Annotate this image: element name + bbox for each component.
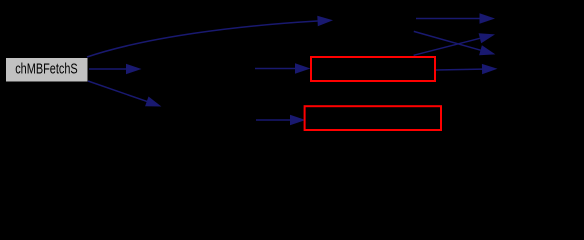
arrowhead (480, 13, 496, 23)
svg-text:chMBFetchS: chMBFetchS (15, 61, 77, 77)
wire: edge node A -> node B1 (horizontal) (416, 18, 480, 20)
wire: edge node A -> node B3 (diagonal down) (414, 31, 481, 50)
wire: edge chMBFetchS -> node E (diagonal down) (88, 81, 148, 102)
wire: edge node E -> red box 2 (256, 119, 291, 121)
arrowhead (126, 64, 142, 74)
arrowhead (479, 33, 495, 43)
node: red box 2 (truncated node) (305, 106, 441, 130)
arrowhead of curved edge (317, 16, 333, 26)
arrowhead (295, 63, 311, 73)
arrowhead (479, 45, 495, 55)
node chMBFetchS (current function, grey filled) (6, 58, 89, 83)
node: red box 1 (truncated node) (311, 57, 435, 81)
arrowhead (482, 64, 498, 74)
arrowhead (145, 97, 161, 107)
arrowhead (290, 115, 306, 125)
wire: edge red box 1 -> node B2 (diagonal up) (414, 38, 480, 55)
wire: edge chMBFetchS -> node C (89, 68, 127, 70)
wire: edge red box 1 -> node D (436, 68, 482, 71)
wire: edge node C -> red box 1 (255, 68, 296, 70)
wire: curved edge chMBFetchS -> node A (87, 21, 318, 57)
